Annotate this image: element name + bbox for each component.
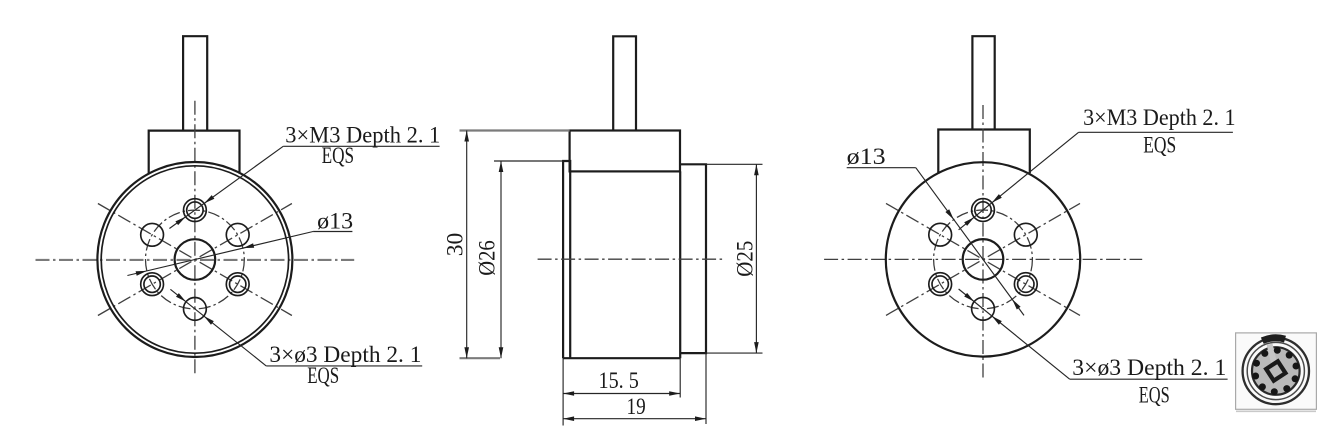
right view phi13 dimension line [916,168,1024,316]
left view phi3 hole at 30deg [226,223,249,246]
middle view body [570,171,680,358]
svg-text:30: 30 [443,233,468,257]
svg-text:3×ø3 Depth 2. 1: 3×ø3 Depth 2. 1 [1072,355,1226,380]
right view bolt circle phi13 [934,210,1033,309]
left view phi13 arrow left [136,271,147,276]
middle view cable [613,36,636,130]
right view phi3 hole at 30deg [1014,223,1037,246]
extension line bottom right [705,353,707,424]
left view M3 arrow far side [175,217,185,225]
left view phi3 hole at 150deg [141,223,164,246]
left view M3 threaded hole at 210deg [141,273,164,296]
right view phi3 hole at 150deg [929,223,952,246]
extension line phi26 top [494,160,563,162]
right view diagonal center line 30deg [886,203,1080,315]
right view M3 threaded hole at 90deg [972,199,995,222]
right view M3 arrow near side [992,194,1002,203]
left view phi3 hole at -90deg [184,298,207,321]
right view center hole [963,239,1004,280]
right view horizontal center line [824,258,1142,260]
right view cable [972,36,994,129]
extension line bottom left [562,358,564,425]
middle view front plate phi26 [563,161,570,358]
dimension line 19 [563,418,706,420]
left view phi3 leader line [170,289,266,366]
left view M3 threaded hole at -30deg [226,273,249,296]
connector outer ring [1243,338,1309,404]
svg-text:15. 5: 15. 5 [599,368,639,393]
left view center hole [175,239,216,280]
right view M3 threaded hole at -30deg [1014,273,1037,296]
left view cable [183,36,207,130]
right view M3 leader line [959,132,1079,230]
svg-text:3×M3 Depth 2. 1: 3×M3 Depth 2. 1 [1083,105,1236,130]
connector center key [1264,359,1287,382]
svg-text:ø13: ø13 [847,144,886,169]
right view phi13 underline [847,167,916,169]
svg-text:Ø26: Ø26 [475,240,500,276]
left view M3 leader line [169,146,283,228]
extension line 30 top [460,129,570,131]
extension lines phi25 [706,163,763,165]
left view vertical center line [194,101,196,376]
extension line bottom mid [679,358,681,398]
right view phi13 arrow lower [1012,299,1020,309]
connector key channel [1270,344,1274,362]
extension line 30 bottom [460,357,501,359]
svg-text:EQS: EQS [322,143,355,168]
svg-text:19: 19 [627,394,646,419]
right view vertical center line [982,105,984,378]
connector pin field [1252,347,1300,395]
right view diagonal center line -30deg [886,203,1080,315]
dimension line phi26 [500,161,502,358]
middle view horizontal center line [538,258,726,260]
right view M3 threaded hole at 210deg [929,273,952,296]
left view M3 arrow near side [204,195,214,203]
left view phi13 dimension line [127,232,313,276]
right view body circle [886,162,1080,356]
left view diagonal center line 30deg [98,204,292,316]
right view phi3 arrow far side [964,293,974,302]
right view M3 arrow far side [964,217,974,226]
dimension line 30 [466,131,468,359]
left view body outer circle [97,162,292,357]
connector pins [1252,347,1299,395]
left view bolt circle phi13 [146,210,245,309]
left view horizontal center line [36,259,355,261]
right view phi13 arrow upper [945,209,953,219]
left view M3 leader underline [283,145,439,147]
dimension line 15.5 [563,393,680,395]
left view phi13 arrow right [243,243,254,248]
middle view gland base [570,131,680,172]
svg-text:Ø25: Ø25 [733,241,758,277]
svg-text:EQS: EQS [1139,383,1170,408]
middle view body bottom edge [563,357,680,359]
left view body inner rim circle [101,166,288,353]
connector photo frame [1236,333,1317,409]
svg-text:ø13: ø13 [317,209,353,234]
connector keyway notch [1262,338,1285,341]
svg-text:3×M3 Depth 2. 1: 3×M3 Depth 2. 1 [285,123,440,148]
svg-text:EQS: EQS [307,363,339,388]
left view phi13 underline [313,231,352,233]
left view phi3 leader underline [266,365,422,367]
left view phi3 arrow far side [176,293,186,302]
right view M3 leader underline [1079,131,1233,133]
dimension line phi25 [755,164,757,353]
left view phi3 arrow near side [204,316,214,325]
svg-text:EQS: EQS [1143,133,1176,158]
right view phi3 arrow near side [992,316,1002,325]
middle view back plate phi25 [680,164,706,353]
right view phi3 hole at -90deg [972,297,995,320]
right view phi3 leader line [959,289,1070,379]
left view M3 threaded hole at 90deg [184,199,207,222]
connector photo bottom smear [1236,410,1316,412]
svg-text:3×ø3 Depth 2. 1: 3×ø3 Depth 2. 1 [269,342,421,367]
left view collar [149,131,240,175]
right view collar [938,130,1030,174]
left view diagonal center line -30deg [98,204,292,316]
right view phi3 leader underline [1070,378,1228,380]
connector middle ring [1247,342,1304,399]
